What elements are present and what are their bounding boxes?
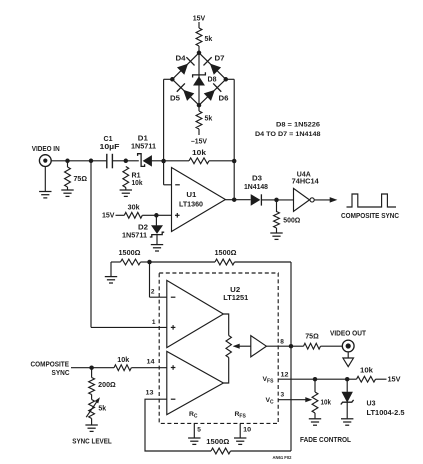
svg-text:LT1360: LT1360 <box>179 202 203 209</box>
op-amp U1 LT1360 <box>172 168 226 232</box>
svg-text:75Ω: 75Ω <box>305 334 319 341</box>
node bridge left junction <box>170 77 175 82</box>
label U2 <box>230 287 240 294</box>
wire D3 to 500ohm node <box>261 199 276 201</box>
wire 5k to bridge top <box>198 46 200 53</box>
ground VIDEO IN <box>39 192 51 198</box>
wire D2 node to U1 +in <box>156 214 171 216</box>
svg-text:10k: 10k <box>321 400 332 407</box>
wire D1 to inverting node <box>152 160 164 162</box>
ground 500ohm <box>270 233 282 239</box>
wire VIDEO IN to 75ohm node <box>51 160 67 162</box>
pin 5 label <box>197 427 201 434</box>
pin 14 label <box>147 359 155 366</box>
resistor 1500ohm (gain set) <box>121 259 141 265</box>
ground fade pot <box>309 419 321 425</box>
label D2 1N5711 <box>122 233 147 240</box>
label 5k (pot) <box>98 405 106 412</box>
wire bridge edge T-R <box>199 53 226 80</box>
wire bridge edge B-L <box>172 79 199 105</box>
wire 10k to -15V <box>376 378 387 380</box>
wire VIDEO OUT shield down <box>347 352 349 358</box>
diode D4 <box>178 57 195 74</box>
ground 75ohm <box>61 190 73 196</box>
label D3 1N4148 <box>244 184 268 191</box>
svg-text:5k: 5k <box>205 36 213 43</box>
svg-text:R1: R1 <box>132 173 141 180</box>
label D1 1N5711 <box>131 144 156 151</box>
wire fade pot to ground <box>314 413 316 418</box>
node U1 output junction <box>232 197 237 202</box>
svg-text:10k: 10k <box>360 368 373 375</box>
wire pin8 node to 75ohm <box>291 345 304 347</box>
ground pin 10 <box>234 438 246 444</box>
U2 top amp minus symbol <box>171 296 176 298</box>
resistor 10k (U1 feedback) <box>189 158 209 164</box>
svg-text:D4 TO D7 = 1N4148: D4 TO D7 = 1N4148 <box>255 131 321 138</box>
node R1 junction <box>124 159 129 164</box>
wire video tap rail down <box>90 161 92 328</box>
pin 2 label <box>151 289 155 296</box>
label U3 <box>367 401 376 408</box>
node sync level junction <box>89 365 94 370</box>
resistor 200ohm <box>89 378 95 395</box>
wire 75ohm node to tap node <box>68 160 92 162</box>
wire feedback 1500ohm to output rail <box>235 262 292 346</box>
wire right rail down to feedback node <box>233 79 235 161</box>
ground R1 <box>120 190 132 196</box>
label 5k (top resistor) <box>205 36 213 43</box>
label 1500ohm (gain set) <box>119 250 141 257</box>
svg-text:5k: 5k <box>205 116 213 123</box>
svg-text:500Ω: 500Ω <box>283 218 300 225</box>
ground D2 <box>151 245 163 251</box>
label 30k <box>128 205 140 212</box>
label SYNC LEVEL <box>72 438 112 445</box>
U1 minus input symbol <box>175 184 180 186</box>
wire U1 output to rail node <box>225 199 234 201</box>
pin VC label <box>266 397 275 406</box>
label 1500ohm (feedback) <box>215 250 237 257</box>
pin VFS label <box>263 376 275 385</box>
wire R1 to ground <box>125 188 127 190</box>
wire D2 to ground <box>156 235 158 245</box>
label COMPOSITE SYNC (input) <box>31 361 70 377</box>
resistor 5k (top) <box>196 28 202 46</box>
label D1 <box>138 136 148 143</box>
wire bridge center vertical <box>198 53 200 105</box>
node D2 junction <box>154 213 159 218</box>
wire pin 3 wiper arrow (VC net) <box>278 398 311 402</box>
connector VIDEO OUT jack <box>342 340 354 352</box>
label U1 <box>186 192 196 199</box>
svg-text:1: 1 <box>152 319 156 326</box>
svg-text:15V: 15V <box>193 16 206 23</box>
pin 13 label <box>146 390 154 397</box>
net 15V (sync comparator bias) <box>102 213 115 220</box>
wire node down to 200ohm <box>91 368 93 378</box>
node 75ohm junction <box>65 159 70 164</box>
pin 3 label <box>281 392 285 399</box>
label 500ohm <box>283 218 300 225</box>
wire tap node to C1 <box>91 160 107 162</box>
wire bridge left to rail corner <box>164 78 173 80</box>
pin 10 label <box>243 427 251 434</box>
svg-text:D6: D6 <box>219 96 229 103</box>
wire bottom rail to output node <box>231 346 292 451</box>
svg-text:10µF: 10µF <box>100 144 121 151</box>
ground pin 5 <box>188 438 200 444</box>
diode D5 <box>177 83 194 100</box>
wire pin 5 stub <box>193 423 195 437</box>
wire 30k to D2 node <box>142 214 156 216</box>
node feedback/output rail junction <box>232 159 237 164</box>
label 10k (VFS bias) <box>360 368 373 375</box>
label D6 <box>219 96 229 103</box>
U2 input amp (top) <box>167 280 224 347</box>
svg-text:74HC14: 74HC14 <box>292 179 319 186</box>
label 10k (sync input) <box>117 357 129 364</box>
wire U2 apex link <box>223 314 228 383</box>
ground U3 <box>341 419 353 425</box>
label 10k (U1 feedback) <box>192 150 206 157</box>
wire node to 10k (sync) <box>92 367 114 369</box>
label COMPOSITE SYNC (output) <box>341 213 399 220</box>
ground VIDEO OUT (chassis) <box>343 358 354 367</box>
svg-text:5k: 5k <box>98 405 106 412</box>
wire 75ohm to VIDEO OUT <box>321 345 343 347</box>
schottky diode D1 <box>138 154 152 167</box>
node 500ohm junction <box>274 198 279 203</box>
svg-text:D8: D8 <box>208 77 217 84</box>
label C1 <box>104 136 113 143</box>
label U2 LT1251 <box>223 295 248 302</box>
pin 1 label <box>152 319 156 326</box>
svg-text:14: 14 <box>147 359 155 366</box>
wire 15V to 30k <box>116 214 125 216</box>
wire node A down to U2 pin2 <box>150 262 167 297</box>
wire ground to 1500ohm <box>111 262 121 276</box>
node A (U2 inverting net) <box>147 260 152 265</box>
svg-text:–15V: –15V <box>191 139 207 146</box>
zener reference U3 LT1004-2.5 <box>341 379 354 418</box>
wire fade node down to 10k pot <box>314 379 316 392</box>
node inverting input junction <box>161 159 166 164</box>
svg-text:D3: D3 <box>252 176 262 183</box>
inverter U4A 74HC14 <box>294 188 315 211</box>
wire VIDEO IN jack shield down <box>44 167 46 191</box>
svg-text:U3: U3 <box>367 401 376 408</box>
IC U2 LT1251 dashed box <box>159 273 278 423</box>
svg-text:D4: D4 <box>176 56 186 63</box>
node video tap junction <box>89 159 94 164</box>
potentiometer 10k (fade control) <box>312 392 318 413</box>
zener diode D8 <box>193 72 206 85</box>
label U1 LT1360 <box>179 202 203 209</box>
svg-text:15V: 15V <box>102 213 115 220</box>
label FADE CONTROL <box>300 437 352 444</box>
svg-text:13: 13 <box>146 390 154 397</box>
svg-text:75Ω: 75Ω <box>74 176 88 183</box>
wire pin 12 (VFS net) <box>278 378 315 380</box>
label 1500ohm (fader feedback) <box>206 439 229 446</box>
label VIDEO IN <box>32 146 60 153</box>
label D8 <box>208 77 217 84</box>
resistor 5k (bottom) <box>196 111 202 129</box>
svg-text:U4A: U4A <box>297 171 311 178</box>
wire bridge right to rail corner <box>226 78 234 80</box>
svg-text:D8 = 1N5226: D8 = 1N5226 <box>276 122 320 129</box>
svg-text:8: 8 <box>280 339 284 346</box>
wire 200ohm to 5k pot <box>91 395 93 400</box>
label 75ohm (output) <box>305 334 319 341</box>
label 200ohm <box>98 382 116 389</box>
svg-text:LT1251: LT1251 <box>223 295 248 302</box>
label 10k (fade pot) <box>321 400 332 407</box>
node U3 junction <box>345 377 350 382</box>
potentiometer 5k (sync level) <box>86 398 99 419</box>
wire 1500ohm to node A <box>141 261 150 263</box>
label U3 LT1004-2.5 <box>367 410 405 417</box>
node bridge right junction <box>224 77 229 82</box>
resistor 75ohm (input termination) <box>65 167 71 187</box>
svg-text:COMPOSITE SYNC: COMPOSITE SYNC <box>341 213 399 220</box>
net -15V (VFS bias) <box>388 377 401 384</box>
label VIDEO OUT <box>330 330 367 337</box>
node fade pot junction <box>313 377 318 382</box>
svg-text:U2: U2 <box>230 287 240 294</box>
svg-text:3: 3 <box>281 392 285 399</box>
wire pin 10 stub <box>239 423 241 437</box>
resistor 10k (sync input) <box>114 365 131 371</box>
wire 5k pot to ground <box>91 419 93 425</box>
wire 5k to -15V <box>198 129 200 135</box>
svg-text:10k: 10k <box>117 357 129 364</box>
svg-text:D1: D1 <box>138 136 148 143</box>
capacitor C1 10uF <box>107 154 113 169</box>
svg-text:1500Ω: 1500Ω <box>206 439 229 446</box>
svg-text:LT1004-2.5: LT1004-2.5 <box>367 410 405 417</box>
resistor 500ohm <box>274 212 280 229</box>
label D2 <box>138 225 148 232</box>
wire 500ohm node to U4A <box>277 199 294 201</box>
note D4 TO D7 = 1N4148 <box>255 131 321 138</box>
figure tag <box>273 455 293 460</box>
label D3 <box>252 176 262 183</box>
svg-text:30k: 30k <box>128 205 140 212</box>
wire 75ohm to ground <box>67 187 69 190</box>
svg-text:VIDEO OUT: VIDEO OUT <box>330 330 367 337</box>
svg-text:2: 2 <box>151 289 155 296</box>
svg-text:1N5711: 1N5711 <box>122 233 147 240</box>
U2 top amp plus symbol <box>171 325 176 330</box>
svg-text:SYNC: SYNC <box>52 370 70 377</box>
svg-text:15V: 15V <box>388 377 401 384</box>
waveform composite sync pulses <box>347 194 397 207</box>
label 75ohm <box>74 176 88 183</box>
svg-text:D7: D7 <box>215 56 225 63</box>
wire 15V to R 5k <box>198 22 200 28</box>
net 15V (top supply label) <box>193 16 206 23</box>
svg-text:FADE CONTROL: FADE CONTROL <box>300 437 352 444</box>
pin 8 label <box>280 339 284 346</box>
resistor 1500ohm (fader feedback) <box>211 448 231 454</box>
wire R1 node to D1 <box>126 160 139 162</box>
diode D7 <box>204 57 221 74</box>
wire bridge edge T-L <box>172 53 199 80</box>
resistor 1500ohm (feedback) <box>215 259 235 265</box>
wire node down to 75ohm <box>67 161 69 167</box>
svg-text:10k: 10k <box>192 150 206 157</box>
pin 12 label <box>281 371 289 378</box>
note D8 = 1N5226 <box>276 122 320 129</box>
svg-text:D2: D2 <box>138 225 148 232</box>
resistor R1 10k <box>123 167 129 188</box>
label R1 <box>132 173 141 180</box>
resistor 75ohm (output) <box>304 343 321 349</box>
wire rail node down from feedback <box>233 161 235 200</box>
wire node to feedback 10k <box>164 160 189 162</box>
U2 fader amp (bottom) <box>167 351 224 414</box>
wire D2 node down to D2 <box>155 215 157 225</box>
wire fader wiper arrow <box>234 344 251 348</box>
wire output node to D3 <box>234 199 250 201</box>
wire left rail down to video line <box>163 79 165 161</box>
wire tap rail to U2 pin1 <box>91 326 167 328</box>
U2 output buffer <box>251 336 267 357</box>
wire sync input to node <box>71 367 92 369</box>
wire node down to 500ohm <box>276 200 278 212</box>
svg-text:U1: U1 <box>186 192 196 199</box>
svg-text:1500Ω: 1500Ω <box>215 250 237 257</box>
svg-text:COMPOSITE: COMPOSITE <box>31 361 70 368</box>
label U4A 74HC14 <box>292 179 319 186</box>
wire bridge bottom to R 5k <box>198 105 200 111</box>
resistor internal fader <box>226 336 231 358</box>
ground 1500ohm (gain set) <box>105 277 117 283</box>
U2 bottom amp plus symbol <box>171 365 176 370</box>
wire bridge edge B-R <box>199 79 226 105</box>
svg-text:10: 10 <box>243 427 251 434</box>
U1 plus input symbol <box>175 213 180 218</box>
svg-text:VIDEO IN: VIDEO IN <box>32 146 60 153</box>
resistor 30k <box>124 212 142 218</box>
pin RC label <box>189 411 198 420</box>
svg-text:D5: D5 <box>170 96 180 103</box>
wire inverting node down to U1 -in <box>164 161 172 185</box>
wire node A to feedback 1500ohm <box>150 261 216 263</box>
label U4A <box>297 171 311 178</box>
label D5 <box>170 96 180 103</box>
wire U4A output arrow <box>314 198 336 203</box>
svg-text:200Ω: 200Ω <box>98 382 116 389</box>
node bridge top junction <box>197 51 202 56</box>
wire U2 buffer to pin 8 node <box>266 345 291 347</box>
svg-text:1N4148: 1N4148 <box>244 184 268 191</box>
wire 10k to U2 pin 14 <box>131 367 167 369</box>
wire C1 to R1 node <box>112 160 125 162</box>
svg-text:C1: C1 <box>104 136 113 143</box>
svg-text:1500Ω: 1500Ω <box>119 250 141 257</box>
svg-text:5: 5 <box>197 427 201 434</box>
net -15V (bridge pulldown) <box>191 139 207 146</box>
diode D6 <box>204 83 221 100</box>
svg-text:1N5711: 1N5711 <box>131 144 156 151</box>
label D4 <box>176 56 186 63</box>
connector VIDEO IN jack <box>39 155 51 167</box>
label D7 <box>215 56 225 63</box>
svg-text:10k: 10k <box>132 180 143 187</box>
pin RFS label <box>235 411 247 420</box>
U2 bottom amp minus symbol <box>171 398 176 400</box>
label 10uF <box>100 144 121 151</box>
wire U3 node to 10k (VFS) <box>347 378 356 380</box>
wire VFS net to U3 node <box>315 378 347 380</box>
schottky diode D2 <box>150 226 164 237</box>
node bridge bottom junction <box>197 103 202 108</box>
ground sync level pot <box>85 425 97 431</box>
wire pin 13 to bottom rail <box>145 399 211 451</box>
diode D3 <box>251 194 261 205</box>
node video out junction (pin 8) <box>289 344 294 349</box>
label R1 10k <box>132 180 143 187</box>
svg-text:12: 12 <box>281 371 289 378</box>
wire 500ohm to ground <box>276 228 278 233</box>
resistor 10k (VFS bias) <box>357 376 376 382</box>
label 5k (bottom resistor) <box>205 116 213 123</box>
wire feedback 10k to output rail <box>209 160 234 162</box>
svg-text:SYNC LEVEL: SYNC LEVEL <box>72 438 112 445</box>
svg-text:AN61 F02: AN61 F02 <box>273 455 293 460</box>
